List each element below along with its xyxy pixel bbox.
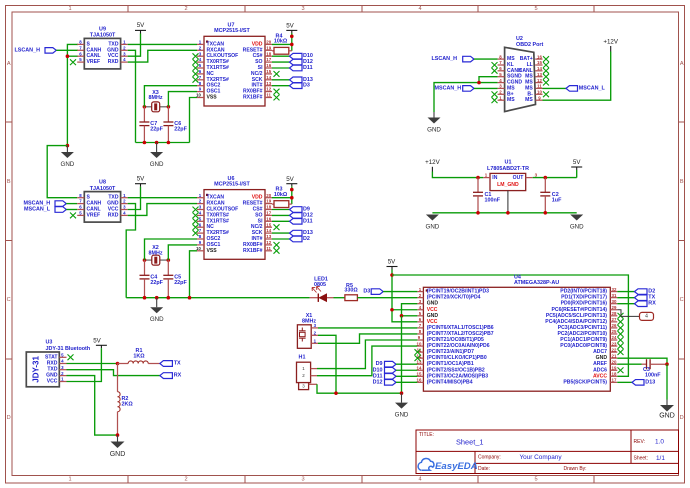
svg-text:D: D	[7, 415, 11, 421]
wire 5V to U3 VCC	[67, 348, 102, 381]
junction CANL	[66, 54, 70, 58]
svg-text:VDD: VDD	[252, 195, 263, 201]
svg-text:330Ω: 330Ω	[344, 288, 358, 294]
ground GND (U1 left)	[426, 215, 440, 231]
svg-text:+12V: +12V	[425, 159, 440, 166]
svg-text:RXD: RXD	[47, 361, 58, 367]
junction C3 right	[665, 362, 669, 366]
svg-text:B: B	[680, 179, 684, 185]
border numbers bottom	[68, 477, 537, 483]
svg-text:Your Company: Your Company	[520, 454, 563, 461]
svg-text:GND: GND	[426, 224, 440, 231]
wire U1 OUT to 5V	[533, 177, 577, 179]
wire VSS2 to rail2	[190, 251, 198, 298]
junction X2 left	[143, 258, 147, 262]
wire LED to R5	[334, 297, 345, 299]
svg-text:VREF: VREF	[87, 59, 101, 65]
border ticks bottom	[128, 476, 594, 484]
svg-text:VSS: VSS	[207, 248, 218, 254]
wire X1 pin2 to ground rail	[318, 335, 336, 393]
ground GND (left of U9 area)	[61, 146, 75, 168]
wire U3 GND to bottom	[67, 376, 118, 436]
junction rail GND column	[400, 391, 404, 395]
wire U1 ground rail	[432, 212, 576, 214]
svg-text:22pF: 22pF	[174, 127, 187, 133]
svg-text:5: 5	[534, 477, 537, 483]
svg-text:C: C	[680, 297, 684, 303]
svg-text:RXD: RXD	[108, 59, 119, 65]
svg-text:4: 4	[418, 477, 421, 483]
svg-text:15: 15	[537, 60, 542, 65]
junction SGND/CGND	[477, 81, 481, 85]
svg-text:VCC: VCC	[47, 379, 58, 385]
svg-text:29: 29	[612, 305, 617, 310]
svg-text:A: A	[7, 61, 11, 67]
svg-text:REV:: REV:	[634, 439, 645, 445]
svg-text:25: 25	[612, 329, 617, 334]
IC U4 ATMEGA328P-AU	[417, 275, 618, 392]
no-connect X OBD2 left pins 7,6,2,1	[492, 62, 498, 103]
power flag 5V (U9 VCC)	[135, 22, 146, 33]
wire D11 to pin15	[396, 375, 417, 377]
svg-text:22: 22	[612, 347, 617, 352]
junction X3 right	[167, 105, 171, 109]
svg-text:11: 11	[266, 93, 271, 98]
net port D12 (U4 PB4)	[373, 379, 396, 385]
svg-text:AVCC: AVCC	[593, 373, 607, 379]
svg-text:22pF: 22pF	[150, 127, 163, 133]
power flag 5V (U6 VDD)	[286, 176, 297, 187]
svg-text:VSS: VSS	[207, 95, 218, 101]
svg-text:U8: U8	[99, 180, 106, 186]
wire 5V over to AVCC	[392, 275, 628, 376]
svg-text:Sheet:: Sheet:	[634, 456, 648, 462]
svg-text:Drawn By:: Drawn By:	[564, 466, 587, 472]
net port D2 (U4 PD2)	[617, 291, 634, 293]
svg-text:100nF: 100nF	[645, 372, 661, 378]
svg-text:GND: GND	[61, 161, 75, 168]
net port D10 (U4 PB2)	[373, 367, 396, 373]
wire U9 CANL to vertical	[67, 55, 78, 57]
wire SGND pin5	[479, 77, 498, 83]
wire AREF to C3	[617, 363, 641, 365]
no-connect X U7 right pins 15,12,11	[274, 71, 280, 100]
IC U7 MCP2515-I/ST	[196, 23, 272, 107]
svg-text:16: 16	[537, 54, 542, 59]
svg-text:10: 10	[417, 341, 422, 346]
wire 5V to U9 VCC	[128, 34, 141, 57]
svg-text:GND: GND	[150, 161, 164, 168]
svg-text:1.0: 1.0	[655, 439, 664, 446]
svg-text:2: 2	[184, 6, 187, 12]
svg-text:4: 4	[645, 314, 648, 320]
svg-text:15: 15	[266, 222, 271, 227]
resistor R3 10k	[272, 187, 292, 208]
junction GND node (U3)	[116, 433, 120, 437]
wire VSS to rail	[190, 98, 198, 143]
junction VDD2 node	[290, 196, 294, 200]
net port D3 (U4 PD3)	[363, 289, 383, 295]
svg-text:18: 18	[612, 372, 617, 377]
svg-text:18: 18	[266, 205, 271, 210]
svg-text:JDY-31: JDY-31	[32, 356, 41, 383]
net port RX (U4 PD0)	[617, 303, 634, 305]
svg-text:16: 16	[266, 216, 271, 221]
no-connect X U6 left pins 3-7	[193, 207, 199, 236]
junction rail2 GND	[155, 296, 159, 300]
wire GND down to bottom rail	[401, 316, 403, 393]
junction VDD node	[290, 43, 294, 47]
wire +12V to U1 IN	[432, 172, 483, 178]
svg-text:OBD2 Port: OBD2 Port	[516, 42, 543, 48]
junction C1 top	[476, 176, 480, 180]
power flag 5V (U7 VDD)	[286, 23, 297, 34]
wire OSC2 to X2	[145, 239, 198, 260]
svg-text:23: 23	[612, 341, 617, 346]
net port D9 (U6 CS)	[272, 209, 290, 211]
svg-text:5V: 5V	[388, 258, 396, 265]
svg-text:1uF: 1uF	[552, 198, 562, 204]
svg-text:5V: 5V	[137, 22, 145, 29]
svg-text:26: 26	[612, 323, 617, 328]
net port D11 (U7 SI)	[272, 67, 290, 69]
wire U3 RXD to R1	[67, 363, 118, 365]
capacitor C7 22pF	[139, 107, 163, 143]
wire pin9 to +12V	[543, 52, 611, 101]
no-connect X U3 STAT	[68, 354, 74, 360]
svg-text:U1: U1	[505, 159, 512, 165]
IC U6 MCP2515-I/ST	[196, 176, 272, 259]
power flag +12V (OBD2)	[603, 38, 618, 51]
wire MSCAN_H to U8 CANH	[66, 203, 77, 205]
svg-text:18: 18	[266, 51, 271, 56]
svg-text:OUT: OUT	[513, 175, 525, 181]
resistor R2 2K (pulldown)	[118, 364, 134, 436]
svg-text:MSCAN_L: MSCAN_L	[24, 207, 51, 213]
capacitor C3 100nF	[642, 359, 668, 378]
junction X2 right	[167, 258, 171, 262]
wire OSC1 to X3	[168, 92, 197, 107]
svg-text:27: 27	[612, 317, 617, 322]
svg-text:0805: 0805	[314, 282, 326, 288]
capacitor C1 100nF	[473, 178, 501, 213]
svg-text:14: 14	[266, 75, 271, 80]
svg-text:13: 13	[266, 81, 271, 86]
wire ground rail block1	[136, 142, 190, 144]
wire VDD pin20	[272, 43, 292, 45]
junction rail2 C5	[167, 296, 171, 300]
junction X3 left	[143, 105, 147, 109]
svg-text:28: 28	[612, 311, 617, 316]
power flag 5V (U4)	[387, 258, 398, 269]
svg-text:22pF: 22pF	[174, 280, 187, 286]
svg-text:2KΩ: 2KΩ	[122, 402, 134, 408]
resistor R4 10k	[272, 33, 292, 54]
wire 5V to VDD2 and R3	[291, 186, 293, 204]
IC U1 L7805ABD2T-TR	[483, 159, 537, 212]
svg-text:12: 12	[266, 240, 271, 245]
power flag 5V (U3)	[93, 338, 107, 349]
svg-text:3: 3	[301, 477, 304, 483]
wire LSCAN_H to U9 CANH	[56, 49, 78, 51]
svg-text:30: 30	[612, 299, 617, 304]
svg-text:17: 17	[266, 57, 271, 62]
wire GND pin5	[402, 315, 418, 317]
svg-text:D11: D11	[303, 218, 313, 224]
svg-text:LSCAN_H: LSCAN_H	[15, 47, 41, 53]
wire U9 S net vertical	[67, 44, 78, 145]
svg-text:RX1BF#: RX1BF#	[243, 95, 263, 101]
svg-text:TITLE:: TITLE:	[419, 432, 434, 438]
svg-text:MS: MS	[525, 97, 533, 103]
svg-text:16: 16	[266, 63, 271, 68]
junction GND node	[66, 144, 70, 148]
svg-text:D12: D12	[373, 379, 383, 385]
wire GND pin21 over to C3 junction	[617, 358, 667, 364]
wire H1 pin2 to PD6	[317, 346, 417, 376]
svg-text:15: 15	[417, 372, 422, 377]
net port MSCAN_H	[24, 201, 67, 207]
capacitor C2 1uF	[540, 178, 562, 213]
wire X1 pin3 to XTAL1	[318, 327, 417, 329]
svg-text:GND: GND	[110, 451, 126, 458]
EasyEDA logo	[418, 459, 478, 472]
svg-text:1: 1	[68, 6, 71, 12]
svg-text:(PCINT4/MISO)PB4: (PCINT4/MISO)PB4	[427, 379, 473, 385]
svg-text:14: 14	[537, 66, 542, 71]
svg-text:10: 10	[537, 90, 542, 95]
no-connect X OBD2 right pins 16,15,14,13,12,10	[543, 56, 549, 97]
svg-text:RXD: RXD	[108, 212, 119, 218]
svg-text:11: 11	[537, 84, 542, 89]
svg-text:MCP2515-I/ST: MCP2515-I/ST	[214, 28, 250, 34]
resistor R5 330ohm	[344, 283, 358, 301]
wire GND pin3	[402, 304, 418, 316]
wire 5V down to OUT rail	[576, 170, 578, 178]
svg-text:12: 12	[537, 78, 542, 83]
wire to U8 S pin	[47, 146, 77, 198]
svg-text:U3: U3	[46, 339, 53, 345]
junction rail X1 pin2	[334, 391, 338, 395]
no-connect X U8 VREF	[70, 213, 76, 219]
net port LSCAN_H (OBD2)	[432, 56, 475, 62]
net port D12 (U6 SO)	[272, 214, 290, 216]
svg-text:RX1BF#: RX1BF#	[243, 248, 263, 254]
svg-text:MS: MS	[507, 97, 515, 103]
junction rail U1 GND	[506, 211, 510, 215]
wire OSC2 to X3	[144, 86, 197, 107]
svg-text:B: B	[7, 179, 11, 185]
net port RX (U3)	[160, 373, 182, 379]
border letters right	[680, 61, 684, 421]
svg-text:D3: D3	[363, 289, 370, 295]
svg-text:GND: GND	[427, 127, 441, 134]
wire OSC1 to X2	[168, 245, 197, 260]
svg-text:3: 3	[301, 6, 304, 12]
border letters left	[7, 61, 11, 421]
svg-text:14: 14	[417, 365, 422, 370]
ground GND (block2 rail)	[150, 298, 164, 324]
capacitor C4 22pF	[140, 260, 164, 298]
svg-text:19: 19	[266, 45, 271, 50]
svg-text:L7805ABD2T-TR: L7805ABD2T-TR	[487, 166, 529, 172]
IC U9 TJA1050T	[77, 27, 128, 69]
wire 5V down to VCC pins	[392, 270, 417, 322]
svg-text:5V: 5V	[286, 23, 294, 30]
wire MSCAN_H to pin3	[474, 87, 498, 89]
svg-text:ATMEGA328P-AU: ATMEGA328P-AU	[514, 280, 559, 286]
title block frame	[416, 430, 679, 474]
svg-text:20: 20	[612, 359, 617, 364]
svg-text:MSCAN_H: MSCAN_H	[435, 85, 462, 91]
connector U2 OBD2 Port	[498, 36, 544, 112]
wire D10 to pin14	[396, 369, 417, 371]
net port TX (U3)	[160, 361, 181, 367]
crystal X1 8MHz	[297, 313, 318, 348]
test point 4 on RESET	[617, 310, 653, 321]
svg-text:5V: 5V	[93, 338, 101, 345]
ground GND (U3)	[110, 435, 126, 458]
border ticks top	[128, 6, 594, 13]
junction GND5	[400, 314, 404, 318]
header H1	[297, 355, 318, 390]
net port D3 (U7 INT)	[272, 85, 290, 87]
svg-text:MCP2515-I/ST: MCP2515-I/ST	[214, 181, 250, 187]
wire U8 RXD to U6 RXCAN	[128, 204, 197, 216]
svg-text:MSCAN_L: MSCAN_L	[579, 85, 606, 91]
junction 5V node 2	[290, 188, 294, 192]
power flag 5V (U1 OUT)	[571, 159, 582, 170]
net port LSCAN_H	[15, 47, 57, 53]
net port D13 (U6 SCK)	[272, 232, 290, 234]
svg-text:TX: TX	[174, 361, 181, 367]
wire R5 to U4 PD4	[357, 297, 417, 299]
ground GND (U1 right)	[570, 215, 584, 231]
border ticks right	[679, 122, 686, 359]
svg-text:100nF: 100nF	[485, 198, 501, 204]
svg-text:Date:: Date:	[478, 466, 490, 472]
junction rail C1	[476, 211, 480, 215]
svg-text:5V: 5V	[286, 176, 294, 183]
svg-text:2: 2	[184, 477, 187, 483]
junction 5V node	[290, 35, 294, 39]
svg-text:GND: GND	[570, 224, 584, 231]
svg-text:1/1: 1/1	[656, 455, 665, 462]
junction rail2 C4	[143, 296, 147, 300]
net port D13 (U7 SCK)	[272, 79, 290, 81]
svg-text:H1: H1	[299, 355, 306, 361]
svg-text:31: 31	[612, 293, 617, 298]
no-connect X U4 right pins 28-22,19	[618, 313, 624, 373]
svg-text:+12V: +12V	[603, 38, 618, 45]
IC U3 JDY-31 Bluetooth	[26, 339, 90, 387]
junction rail2 VSS	[188, 296, 192, 300]
svg-text:17: 17	[266, 211, 271, 216]
wire VDD2 pin20	[272, 197, 292, 199]
LED LED1 0805	[310, 277, 334, 303]
svg-text:12: 12	[266, 87, 271, 92]
net port TX (U4 PD1)	[617, 297, 634, 299]
svg-text:GND: GND	[395, 412, 409, 419]
svg-text:C: C	[7, 297, 11, 303]
svg-text:1KΩ: 1KΩ	[133, 354, 145, 360]
net port MSCAN_H (OBD2)	[435, 85, 475, 91]
svg-text:16: 16	[417, 378, 422, 383]
border numbers top	[68, 6, 537, 12]
svg-text:LSCAN_H: LSCAN_H	[432, 56, 458, 62]
svg-text:13: 13	[537, 72, 542, 77]
wire U3 TXD to RX port	[67, 370, 160, 376]
svg-text:VCC: VCC	[427, 319, 438, 325]
svg-text:D3: D3	[303, 83, 310, 89]
no-connect X U4 left pins 11,12	[415, 349, 421, 361]
junction VCC4	[390, 308, 394, 312]
svg-text:EasyEDA: EasyEDA	[435, 461, 478, 472]
net port D10 (U7 CS)	[272, 55, 290, 57]
ground GND (block1 rail)	[150, 143, 164, 169]
no-connect X U6 right pins 15,12,11	[274, 224, 280, 253]
net port D2 (U6 INT)	[272, 238, 290, 240]
junction rail C7	[143, 141, 147, 145]
svg-text:11: 11	[266, 246, 271, 251]
junction 5V node	[390, 273, 394, 277]
wire down to GND (right)	[666, 364, 668, 399]
svg-text:LM_GND: LM_GND	[497, 182, 519, 188]
wire H1 pin3 to ground rail	[317, 384, 402, 393]
svg-text:D: D	[680, 415, 684, 421]
svg-text:19: 19	[266, 199, 271, 204]
svg-text:17: 17	[612, 378, 617, 383]
wire D3 to pin1	[383, 291, 417, 293]
net port D13 (U4 PB5)	[617, 381, 632, 383]
svg-text:21: 21	[612, 353, 617, 358]
svg-text:U9: U9	[99, 27, 106, 33]
svg-text:24: 24	[612, 335, 617, 340]
net port MSCAN_L (OBD2)	[566, 85, 606, 91]
wire H1 pin1 to PD5	[317, 340, 417, 369]
border ticks left	[6, 122, 13, 359]
svg-text:20: 20	[266, 193, 271, 198]
wire 5V to VDD and R4	[291, 33, 293, 51]
wire CGND pin4 to GND	[434, 83, 498, 112]
crystal X3 8MHz	[144, 90, 168, 112]
wire VCC pin4	[392, 309, 417, 311]
wire X1 pin1 to XTAL2	[318, 334, 417, 343]
wire D9 to pin13	[396, 363, 417, 365]
wire U9 RXD to U7 RXCAN	[128, 50, 197, 62]
svg-text:1: 1	[68, 477, 71, 483]
resistor R1 1K	[118, 348, 160, 363]
net port D9 (U4 PB1)	[376, 361, 396, 367]
ground GND (U4 right)	[659, 400, 675, 420]
svg-text:15: 15	[266, 69, 271, 74]
svg-text:VDD: VDD	[252, 41, 263, 47]
ground GND (U4 left rail)	[395, 393, 409, 418]
svg-text:GND: GND	[596, 355, 608, 361]
svg-text:STAT: STAT	[45, 354, 58, 360]
crystal X2 8MHz	[145, 245, 169, 265]
svg-text:5V: 5V	[573, 159, 581, 166]
wire MSCAN_L to U8 CANL	[66, 209, 77, 211]
svg-text:RX: RX	[648, 301, 656, 307]
capacitor C5 22pF	[163, 260, 187, 298]
svg-text:19: 19	[612, 365, 617, 370]
svg-text:5V: 5V	[137, 175, 145, 182]
junction C2 top	[544, 176, 548, 180]
svg-text:4: 4	[418, 6, 421, 12]
wire LSCAN_H to pin8	[474, 58, 498, 60]
svg-text:GND: GND	[150, 316, 164, 323]
